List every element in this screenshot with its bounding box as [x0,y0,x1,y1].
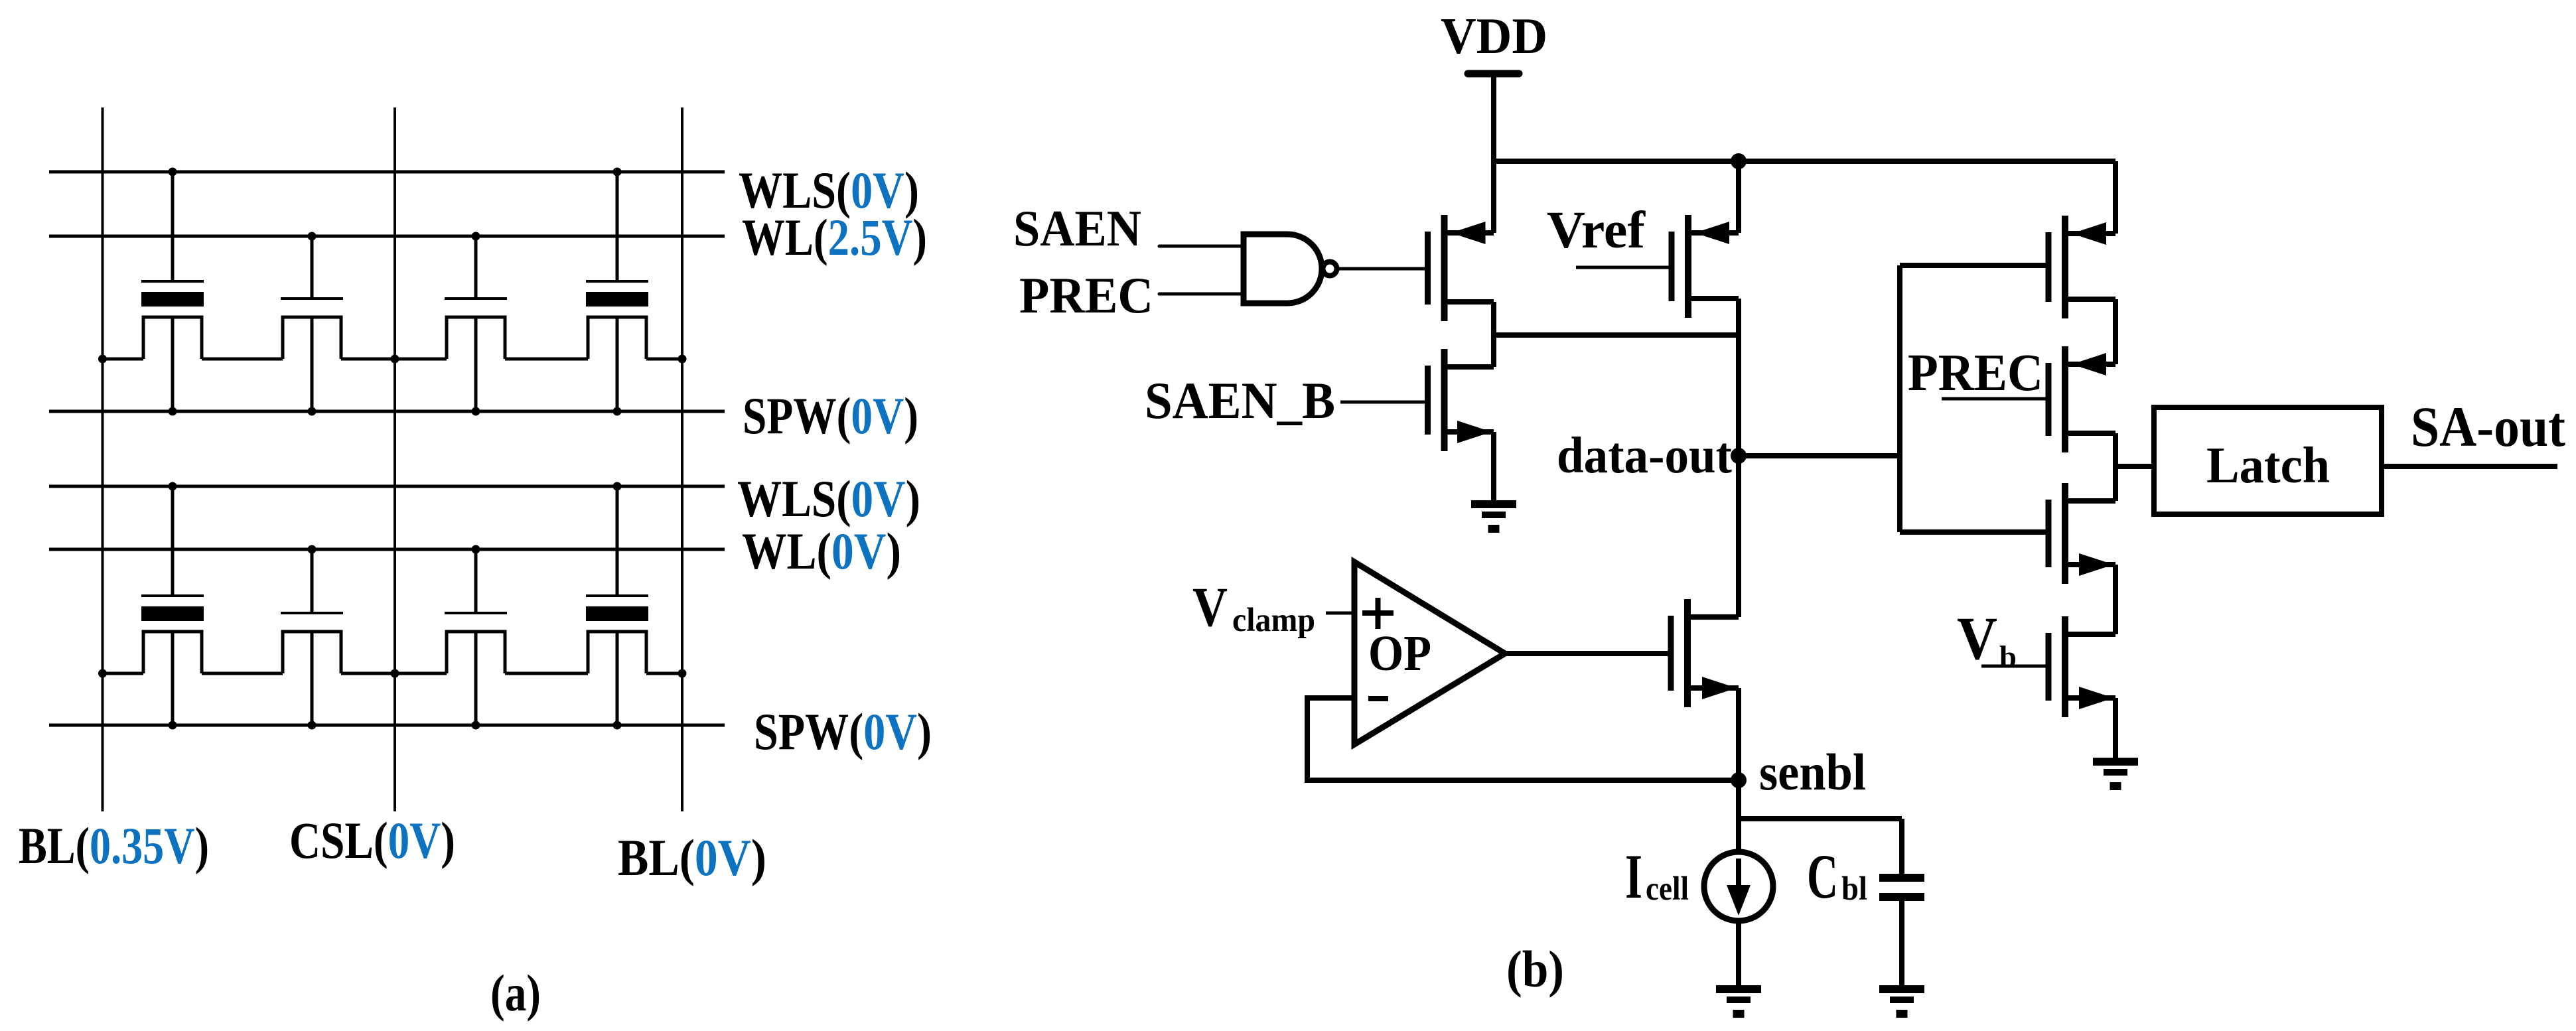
node SPW junction x470 row1 [308,407,317,416]
wire M8 source to M9 drain [2113,565,2118,634]
wire BL1 vertical bit line [102,107,104,811]
wire Vref gate stub [1576,266,1669,269]
node BL2-source junction row2 [678,669,687,678]
svg-text:I: I [1625,841,1642,912]
node BL2-source junction row1 [678,355,687,364]
svg-text:CSL(: CSL( [289,811,388,869]
node SPW junction x470 row2 [308,721,317,730]
block Latch [2154,407,2382,514]
svg-text:VDD: VDD [1441,7,1547,64]
wire latch output SA-out [2382,464,2557,469]
wire M9 source to ground [2113,698,2118,758]
svg-text:0V: 0V [851,387,904,445]
svg-text:SPW(: SPW( [754,703,863,760]
wire gate loop bottom [1900,529,2048,535]
power VDD symbol [1468,74,1519,161]
svg-text:PREC: PREC [1908,344,2043,402]
transistor M3 NMOS SAEN_B [1428,349,1494,451]
wire rail dot to M2 source [1736,161,1741,233]
svg-text:V: V [1957,604,1997,672]
node data-out junction [1731,448,1747,464]
svg-text:OP: OP [1368,626,1431,681]
wire M7 drain to M8 drain [2113,433,2118,501]
wire WLS row2 [49,485,725,488]
wire gate loop top [1900,263,2048,268]
wire senbl branch to Cbl [1739,816,1902,821]
wire WLS row1 [49,171,725,174]
wire source line row1 BL to M11 [103,358,144,361]
transistor M5 NMOS clamp [1671,599,1739,707]
svg-text:WL(: WL( [742,522,831,580]
svg-text:SPW(: SPW( [743,387,851,445]
wire CSL vertical [394,107,396,811]
wire source line row2 BL to M21 [103,672,144,675]
svg-text:): ) [906,470,920,527]
wire M6 drain to M7 source [2113,299,2118,364]
svg-text:C: C [1807,841,1838,912]
transistor M6 PMOS inverter pull-up [2048,216,2115,318]
node BL-source junction row1 [98,355,107,364]
access transistor M13 [445,236,507,411]
svg-text:SAEN_B: SAEN_B [1145,372,1335,429]
node VDD rail junction [1731,153,1747,169]
wire PREC gate stub (underline) [1942,397,2046,401]
wire M2 drain to M5 drain [1736,299,1741,617]
svg-text:b: b [1999,640,2017,675]
svg-text:Vref: Vref [1547,202,1646,259]
node CSL-source junction row2 [391,669,399,678]
svg-text:): ) [195,817,209,874]
gate U1 NAND (SAEN,PREC) [1159,234,1425,303]
wire source line row2 M24 to BL2 [646,672,682,675]
flash cell M24 (floating gate) [586,486,648,725]
svg-text:2.5V: 2.5V [828,208,913,266]
wire WL row2 [49,548,725,551]
svg-text:): ) [751,829,766,886]
svg-text:BL(: BL( [19,817,90,874]
svg-text:WL(: WL( [742,208,828,266]
flash cell M11 (floating gate) [141,172,204,411]
node SPW junction x717 row2 [472,721,480,730]
wire source line row1 M11 to M12 [202,358,283,361]
svg-text:PREC: PREC [1019,267,1153,324]
wire latch input [2115,464,2154,469]
wire gate loop left [1897,265,1902,532]
wire Icell to ground [1736,921,1741,985]
svg-text:V: V [1192,576,1228,638]
transistor M9 NMOS Vb bias [2048,616,2115,717]
wire M5 source to senbl [1736,688,1741,780]
wire senbl down [1736,780,1741,852]
ground G1 below M3 [1471,500,1516,533]
svg-text:): ) [912,208,927,266]
node WLS junction M24 [613,482,622,491]
svg-text:): ) [904,387,918,445]
wire Vb gate stub [1981,665,2046,668]
wire op-amp output [1505,651,1669,656]
svg-text:(b): (b) [1506,940,1564,998]
wire SAEN_B gate stub [1340,401,1425,404]
wire SPW row2 [49,724,725,727]
wire Vclamp input [1326,612,1354,615]
node BL-source junction row2 [98,669,107,678]
wire op-amp feedback [1307,698,1739,780]
wire M3 source to ground [1491,432,1496,500]
svg-text:0V: 0V [695,829,751,886]
current source Icell [1704,852,1773,921]
flash cell M14 (floating gate) [586,172,648,411]
access transistor M12 [281,236,343,411]
node SPW junction x930 row2 [613,721,622,730]
wire source line row1 M14 to BL2 [646,358,682,361]
svg-text:SAEN: SAEN [1013,200,1141,257]
node WL junction M12 [308,232,317,241]
svg-text:SA-out: SA-out [2411,395,2565,458]
access transistor M23 [445,549,507,725]
wire M1 drain to M3 drain [1491,302,1496,367]
svg-text:0V: 0V [851,470,906,527]
wire SPW row1 [49,410,725,413]
node WL junction M13 [472,232,480,241]
svg-text:data-out: data-out [1557,427,1732,484]
svg-text:): ) [441,811,455,869]
svg-text:0V: 0V [388,811,441,869]
transistor M7 PMOS PREC [2048,346,2115,452]
ground G4 below M9 [2093,758,2138,790]
svg-text:): ) [917,703,932,760]
node SPW junction x717 row1 [472,407,480,416]
ground G3 below Cbl [1879,985,1924,1018]
svg-text:): ) [887,522,902,580]
wire Cbl to ground [1899,901,1904,985]
wire source line row2 M22 to M23 (through CSL) [341,672,447,675]
wire Cbl top [1899,819,1904,874]
node WLS junction M11 [169,168,177,176]
capacitor Cbl [1879,874,1924,901]
node WL junction M23 [472,545,480,554]
wire BL2 vertical bit line [681,107,683,811]
svg-text:senbl: senbl [1759,743,1866,801]
transistor M2 PMOS Vref [1672,215,1739,318]
svg-text:0V: 0V [831,522,887,580]
wire source line row1 M12 to M13 (through CSL) [341,358,447,361]
wire VDD rail [1494,159,2115,164]
wire source line row1 M13 to M14 [505,358,588,361]
wire M1 source vertical [1491,161,1496,233]
node WLS junction M21 [169,482,177,491]
svg-text:clamp: clamp [1232,602,1315,639]
svg-text:(a): (a) [490,964,541,1022]
svg-text:WLS(: WLS( [737,470,851,527]
svg-text:BL(: BL( [618,829,695,886]
svg-text:Latch: Latch [2206,437,2330,494]
wire data-out to inverter gates [1739,453,1900,458]
transistor M8 NMOS inverter pull-down [2048,483,2115,584]
node CSL-source junction row1 [391,355,399,364]
wire rail to M6 source [2113,161,2118,234]
access transistor M22 [281,549,343,725]
node SPW junction x930 row1 [613,407,622,416]
wire source line row2 M23 to M24 [505,672,588,675]
transistor M1 precharge PMOS (NAND output gate) [1428,215,1494,321]
op-amp OP [1354,562,1505,744]
node SPW junction x260 row1 [169,407,177,416]
flash cell M21 (floating gate) [141,486,204,725]
node WL junction M22 [308,545,317,554]
svg-text:0V: 0V [863,703,917,760]
svg-text:bl: bl [1841,870,1867,908]
wire source line row2 M21 to M22 [202,672,283,675]
wire mid rail to data-out branch [1494,332,1739,338]
svg-text:0.35V: 0.35V [90,817,195,874]
node SPW junction x260 row2 [169,721,177,730]
wire WL row1 [49,235,725,238]
node WLS junction M14 [613,168,622,176]
node senbl junction [1731,772,1747,788]
svg-text:cell: cell [1646,870,1689,908]
ground G2 below Icell [1716,985,1761,1018]
